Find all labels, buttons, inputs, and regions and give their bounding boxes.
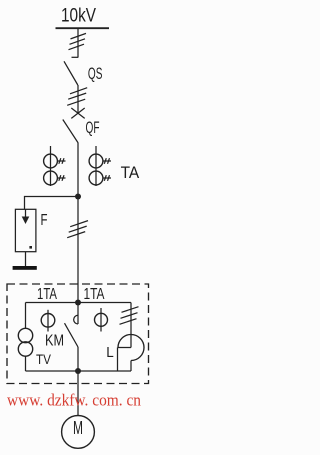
wire cabinet to motor	[77, 371, 79, 415]
three-phase marks on motor feeder	[67, 221, 88, 238]
busbar 10kV	[56, 27, 110, 29]
contactor KM	[65, 303, 79, 372]
bottom rail wire	[26, 370, 132, 372]
svg-text:L: L	[106, 344, 114, 361]
current transformer 1TA left	[41, 310, 55, 332]
svg-text:1TA: 1TA	[37, 286, 57, 303]
current transformer 1TA right	[95, 308, 108, 332]
svg-text:10kV: 10kV	[61, 5, 96, 27]
three-phase marks on incoming line	[69, 33, 87, 49]
wire QS to QF	[77, 85, 79, 113]
surge arrester F	[15, 209, 36, 251]
reactor L	[118, 335, 145, 372]
earth ground	[13, 266, 37, 270]
svg-text:M: M	[73, 417, 83, 438]
svg-text:TV: TV	[36, 351, 52, 367]
svg-text:F: F	[41, 212, 48, 229]
top rail wire	[26, 302, 132, 304]
motor M	[62, 416, 95, 449]
svg-text:KM: KM	[45, 333, 64, 350]
current transformers TA left group	[44, 146, 66, 186]
wire junction to cabinet	[77, 197, 79, 303]
junction node (arrester tap)	[75, 194, 81, 200]
junction node top rail	[75, 300, 81, 306]
current transformers TA right group	[89, 146, 111, 186]
svg-text:1TA: 1TA	[84, 286, 106, 303]
svg-text:TA: TA	[121, 163, 140, 182]
svg-text:QF: QF	[86, 118, 100, 137]
three-phase marks at reactor	[120, 307, 139, 325]
wire to surge arrester F	[25, 197, 79, 210]
wire bus to QS	[77, 28, 79, 57]
svg-text:QS: QS	[88, 64, 103, 83]
circuit breaker QF	[63, 108, 85, 143]
voltage transformer TV	[18, 303, 32, 372]
svg-text:www. dzkfw. com. cn: www. dzkfw. com. cn	[7, 390, 141, 409]
junction node bottom rail	[75, 368, 81, 374]
wire arrester to earth	[25, 252, 27, 266]
three-phase marks between QS and QF	[67, 88, 87, 106]
reactor entry wire	[130, 303, 132, 348]
disconnector QS	[64, 57, 78, 85]
wire QF to junction node	[77, 143, 79, 197]
starter cabinet dashed enclosure	[7, 284, 149, 384]
